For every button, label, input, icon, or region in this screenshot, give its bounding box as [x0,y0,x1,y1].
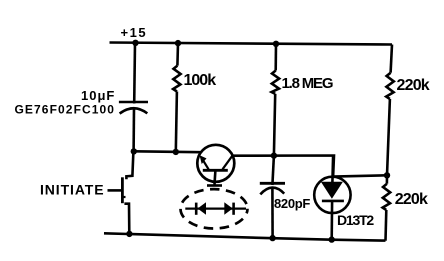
wire bottom rail [104,233,386,240]
diode D1 D13T2 [314,156,350,240]
node junction dot 220k divider mid [384,172,390,178]
svg-text:1.8 MEG: 1.8 MEG [282,75,333,92]
wire D13T2 gate to 220k divider [333,175,387,176]
svg-text:INITIATE: INITIATE [40,182,105,198]
svg-text:100k: 100k [184,72,217,89]
node junction dot top rail / R1 branch [175,40,181,46]
capacitor C1 plates [119,102,148,114]
node junction dot top rail / C1 branch [132,40,138,46]
svg-text:220k: 220k [395,191,428,208]
transistor Q1 [197,145,234,185]
wire C1 top lead [133,43,136,104]
switch S1 tick mark [123,196,126,198]
svg-text:D13T2: D13T2 [337,212,374,228]
node junction dot bottom rail / C2 [269,235,275,241]
switch S1 lower contact and lead to ground rail [124,204,129,234]
resistor R4 220k bottom [383,175,391,240]
node junction dot collector wire / R2 C2 [271,152,277,158]
svg-text:220k: 220k [397,77,430,94]
node junction dot emitter wire / C1 branch [131,148,137,154]
diac right diode [224,202,233,215]
node junction dot bottom rail / S1 [126,231,132,237]
wire Q1 collector to right [232,156,334,178]
node junction dot bottom rail / D13T2 [329,236,335,242]
svg-text:GE76F02FC100: GE76F02FC100 [15,103,116,117]
wire INITIATE lead [108,189,123,192]
diac equivalent dashed ellipse [181,189,248,228]
resistor R2 1.8 MEG [272,44,280,156]
node junction dot top rail / R2 branch [273,41,279,47]
svg-text:820pF: 820pF [274,196,310,211]
wire emitter row to Q1 [134,150,201,153]
wire C1 bottom lead down to emitter-row [132,108,135,153]
capacitor C2 820pF [260,156,285,239]
node junction dot emitter wire / R1 branch [173,149,179,155]
svg-text:10μF: 10μF [81,88,115,103]
resistor R1 100k [173,43,181,152]
switch S1 initiate contact bar [121,177,124,203]
wire down from C1 node to switch S1 [126,152,133,180]
diac left diode [196,202,206,215]
diac internal line [185,208,246,210]
resistor R3 220k top [386,45,394,176]
wire top +15 rail [110,43,393,45]
svg-text:+15: +15 [121,25,148,40]
wire Q1 base terminal bar [207,184,222,187]
